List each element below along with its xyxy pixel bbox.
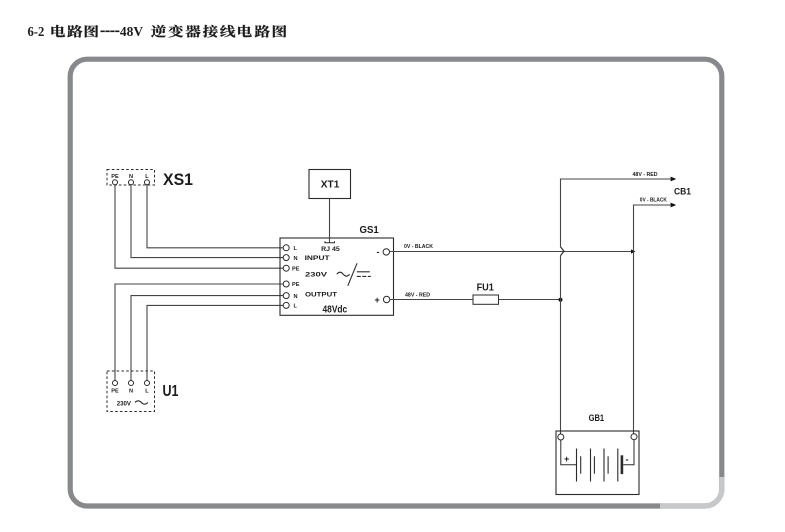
- svg-text:CB1: CB1: [674, 187, 692, 198]
- thick negative plate: [621, 455, 624, 474]
- wire GS1 plus to fuse FU1: [390, 299, 473, 301]
- RJ45 socket symbol: [325, 241, 335, 243]
- svg-text:230V: 230V: [117, 400, 132, 407]
- svg-text:OUTPUT: OUTPUT: [305, 292, 338, 299]
- svg-text:L: L: [294, 246, 298, 252]
- wire U1 PE to GS1 output PE: [115, 284, 283, 381]
- svg-text:48V - RED: 48V - RED: [633, 172, 658, 178]
- hop over 0V wire: [561, 247, 565, 256]
- battery minus lead: [623, 440, 634, 465]
- terminal XT1 box: [309, 170, 351, 199]
- wire XT1 to GS1 RJ45: [329, 199, 331, 243]
- XS1 pin labels PE N L: [111, 174, 149, 180]
- svg-text:L: L: [145, 174, 149, 180]
- svg-text:RJ 45: RJ 45: [321, 246, 340, 253]
- svg-text:GB1: GB1: [589, 413, 605, 423]
- svg-text:+: +: [564, 454, 569, 464]
- svg-text:230V: 230V: [305, 272, 328, 279]
- svg-text:48V - RED: 48V - RED: [405, 293, 430, 299]
- U1 pin circles: [113, 381, 150, 386]
- wire XS1 PE to GS1 input PE: [115, 185, 283, 268]
- 48V-RED rail: top run with arrow to CB1: [561, 179, 671, 247]
- svg-text:6-2: 6-2: [28, 24, 45, 39]
- svg-text:PE: PE: [292, 282, 300, 288]
- svg-text:+: +: [375, 295, 380, 305]
- wire GS1 minus to 0V node: [390, 251, 632, 253]
- svg-text:XS1: XS1: [163, 171, 193, 189]
- GB1 terminal circles: [558, 434, 564, 440]
- svg-text:N: N: [129, 174, 133, 180]
- wire fuse FU1 to 48V rail: [499, 299, 561, 301]
- wire XS1 N to GS1 input N: [131, 185, 283, 258]
- svg-text:N: N: [129, 389, 133, 395]
- svg-text:PE: PE: [292, 266, 300, 272]
- wire XS1 L to GS1 input L: [147, 185, 283, 248]
- svg-text:48Vdc: 48Vdc: [323, 304, 348, 315]
- svg-text:PE: PE: [111, 174, 119, 180]
- arrowhead junction into 0V rail: [631, 249, 636, 253]
- fuse FU1: [473, 295, 499, 304]
- appliance U1 (dashed box): [107, 371, 155, 412]
- light gray bottom-right corner of frame: [660, 477, 722, 506]
- inverter GS1 box: [280, 238, 394, 315]
- outer rounded border frame: [70, 59, 722, 506]
- GS1 left terminal circles: [283, 245, 289, 309]
- junction dot 48V rail: [559, 298, 563, 302]
- U1 pin labels PE N L: [111, 389, 149, 395]
- XS1 pin circles: [113, 180, 150, 185]
- battery GB1 box: [556, 431, 639, 495]
- svg-text:FU1: FU1: [477, 282, 495, 293]
- svg-text:L: L: [294, 304, 298, 310]
- svg-text:0V - BLACK: 0V - BLACK: [640, 198, 667, 204]
- svg-text:L: L: [145, 389, 149, 395]
- svg-text:-: -: [626, 455, 629, 465]
- connector XS1 (dashed terminal block): [107, 170, 155, 186]
- svg-text:N: N: [294, 256, 298, 262]
- GS1 terminal labels: [292, 246, 300, 310]
- svg-text:INPUT: INPUT: [305, 255, 331, 262]
- svg-text:U1: U1: [163, 383, 179, 400]
- svg-text:XT1: XT1: [321, 179, 340, 191]
- svg-text:48V: 48V: [120, 24, 143, 39]
- wire U1 N to GS1 output N: [131, 296, 283, 381]
- svg-text:PE: PE: [111, 389, 119, 395]
- battery plus lead: [561, 440, 577, 465]
- svg-text:0V - BLACK: 0V - BLACK: [404, 244, 433, 250]
- 48V-RED rail: lower run to battery: [560, 256, 562, 434]
- svg-text:GS1: GS1: [360, 224, 379, 236]
- AC/DC converter symbol: [337, 263, 371, 286]
- 0V-BLACK rail with arrow to CB1: [634, 205, 671, 434]
- wire U1 L to GS1 output L: [147, 305, 283, 380]
- svg-text:-: -: [377, 247, 380, 257]
- svg-text:N: N: [294, 294, 298, 300]
- battery cells: [577, 449, 618, 482]
